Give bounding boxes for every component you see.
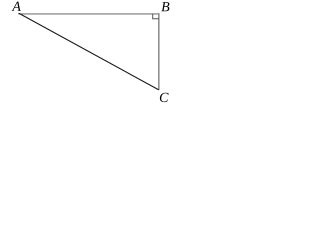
vertex label B <box>161 2 169 11</box>
side BC (right vertical) <box>158 13 160 90</box>
side AC (hypotenuse) <box>19 13 159 90</box>
vertex label A <box>12 2 21 11</box>
side AB (top horizontal) <box>18 13 159 15</box>
vertex label C <box>160 93 169 102</box>
right-angle mark at B <box>153 14 159 19</box>
